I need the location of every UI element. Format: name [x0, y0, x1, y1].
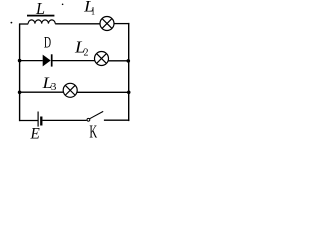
svg-text:K: K	[89, 122, 97, 140]
svg-text:2: 2	[84, 47, 89, 59]
inductor L: iron core bar	[27, 15, 54, 17]
lamp L3	[63, 83, 77, 97]
wire: top row, left corner to inductor	[19, 23, 28, 25]
node: right rail / middle branch junction	[127, 59, 131, 63]
wire: left rail	[19, 24, 21, 122]
svg-text:E: E	[30, 126, 41, 141]
wire: left rail to lamp L3	[19, 91, 64, 93]
svg-text:3: 3	[51, 81, 57, 93]
label L3	[42, 75, 57, 93]
wire: inductor to lamp L1	[55, 23, 100, 25]
wire: battery to switch	[43, 119, 87, 121]
svg-text:1: 1	[91, 5, 95, 17]
wire: switch to bottom right corner	[104, 119, 129, 121]
svg-text:L: L	[35, 0, 45, 18]
svg-text:D: D	[44, 35, 51, 52]
diode D	[43, 54, 52, 66]
switch K	[87, 111, 103, 121]
wire: lamp L1 to right rail	[114, 23, 129, 25]
lamp L2	[95, 52, 109, 66]
wire: lamp L2 to right rail	[108, 60, 129, 62]
label L1	[83, 0, 95, 17]
wire: right rail	[128, 23, 130, 121]
wire: diode to lamp L2	[53, 60, 96, 62]
lamp L1	[100, 17, 114, 31]
node: right rail / lower branch junction	[127, 91, 131, 95]
node: left rail / lower branch junction	[18, 91, 22, 95]
wire: lamp L3 to right rail	[77, 91, 129, 93]
wire: left rail to diode	[19, 60, 43, 62]
battery E	[38, 112, 41, 127]
node: left rail / middle branch junction	[18, 59, 22, 63]
inductor L: winding	[28, 20, 55, 24]
wire: bottom row, left corner to battery	[19, 120, 38, 122]
label L2	[74, 38, 89, 59]
